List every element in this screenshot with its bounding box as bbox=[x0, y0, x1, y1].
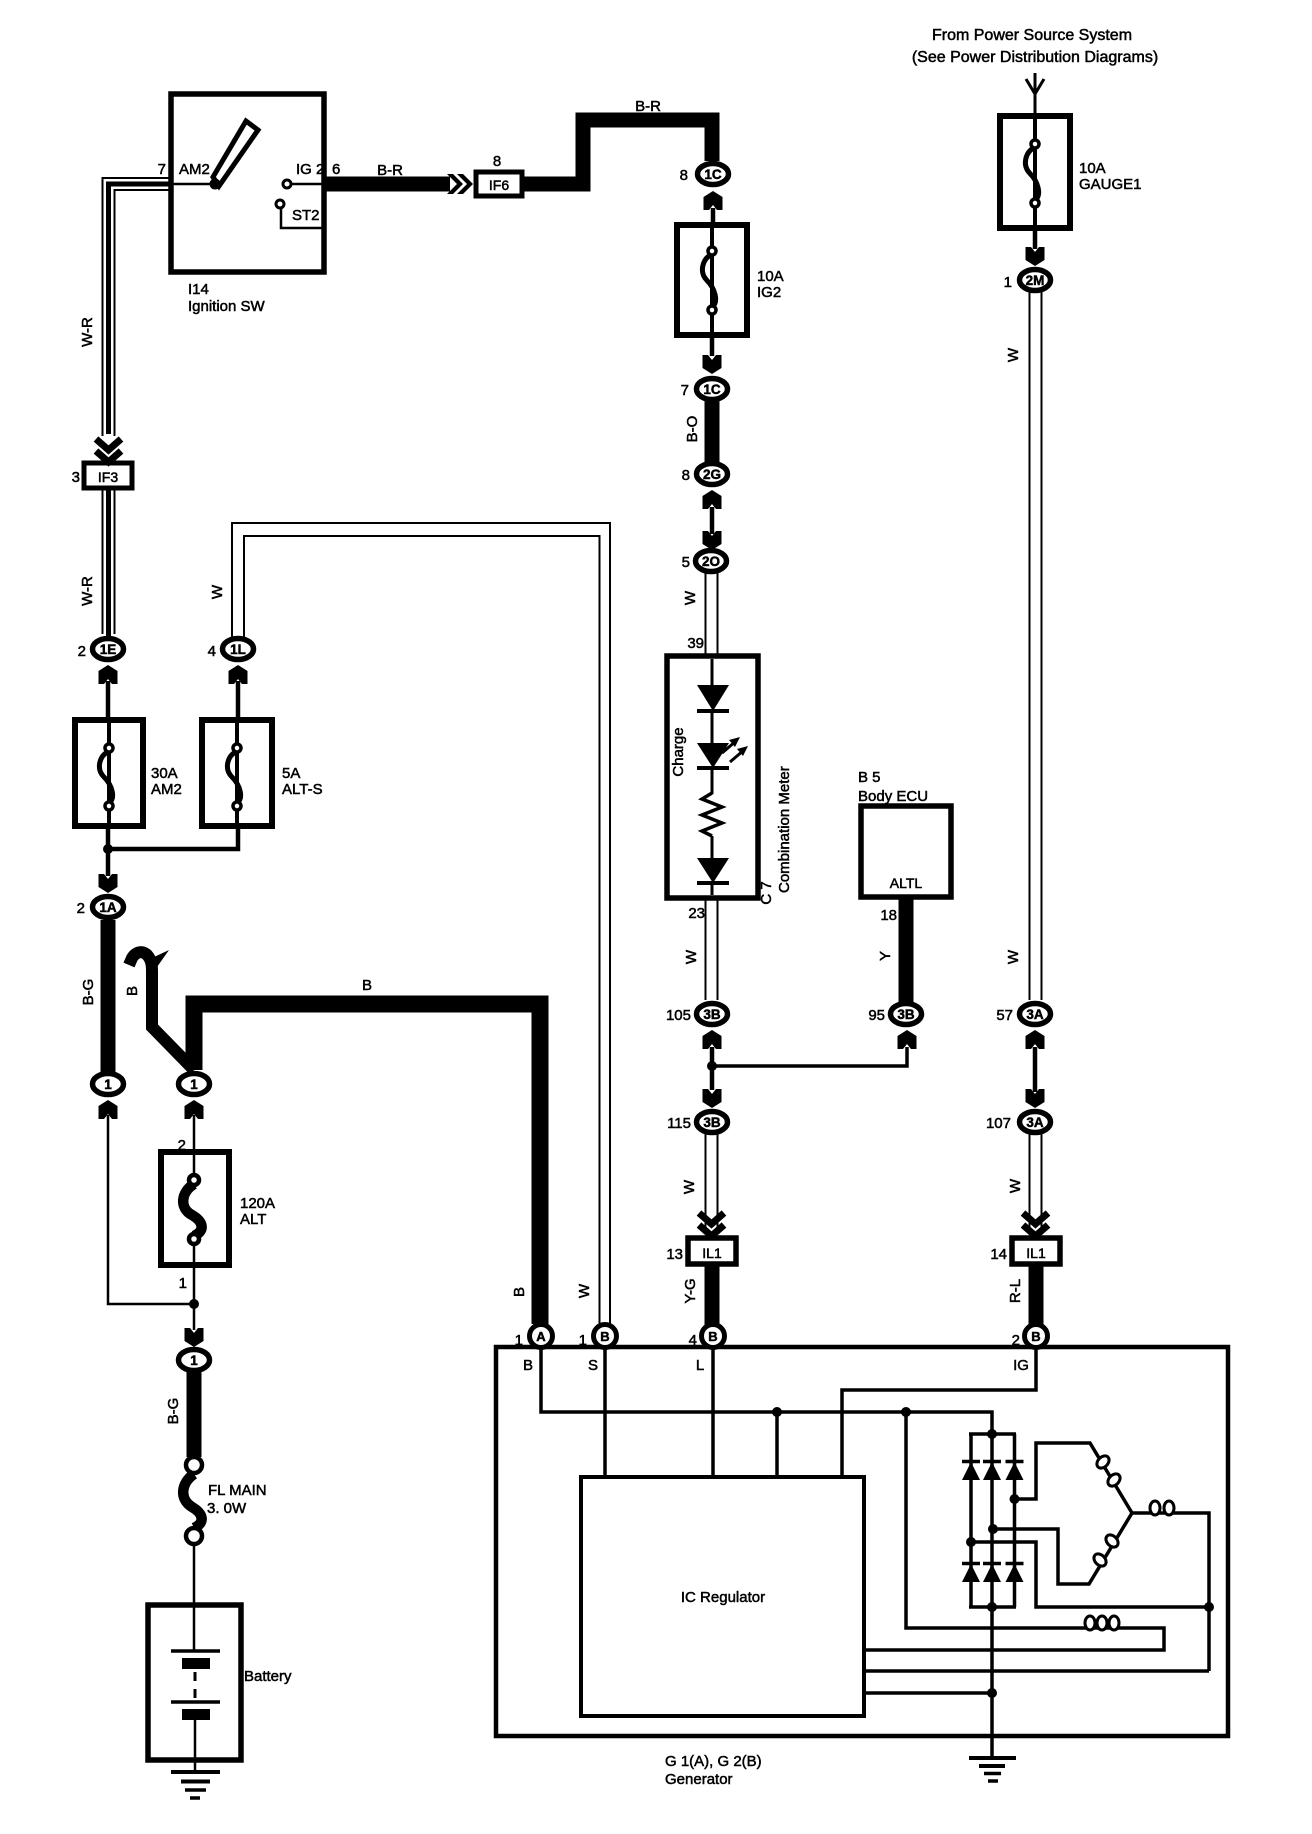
svg-text:1: 1 bbox=[179, 1275, 187, 1292]
arrow into 2O bbox=[703, 531, 722, 550]
svg-text:2G: 2G bbox=[703, 467, 721, 482]
connector 1C top bbox=[698, 164, 729, 185]
svg-text:1: 1 bbox=[190, 1353, 198, 1368]
svg-text:B: B bbox=[600, 1329, 609, 1344]
wire R-L to generator IG bbox=[1029, 1264, 1044, 1325]
svg-text:Y-G: Y-G bbox=[682, 1278, 699, 1303]
diode D2 bbox=[697, 858, 729, 883]
wire through fuse ALT bbox=[193, 1152, 196, 1265]
connector 3B 105 bbox=[697, 1004, 728, 1025]
wire W long line a bbox=[1029, 292, 1031, 1000]
open arrowhead bbox=[1026, 79, 1044, 94]
wire to junction bbox=[108, 1115, 194, 1304]
svg-text:IG: IG bbox=[1013, 1357, 1029, 1374]
arrow into IL1 14 bbox=[1023, 1213, 1048, 1236]
wire B rail internal bbox=[541, 1348, 992, 1758]
svg-text:2: 2 bbox=[78, 643, 86, 660]
svg-text:ST2: ST2 bbox=[292, 207, 320, 224]
connector 3B 115 bbox=[697, 1112, 728, 1133]
junction at 971,1542 bbox=[966, 1537, 976, 1547]
terminal A bbox=[530, 1325, 553, 1348]
terminal B IG bbox=[1025, 1325, 1048, 1348]
ignition switch I14 box bbox=[171, 94, 324, 272]
connector 1 mid bbox=[179, 1074, 210, 1095]
wire W meter to 3B line a bbox=[705, 898, 707, 1000]
svg-text:B-R: B-R bbox=[635, 98, 661, 115]
diode lower col2 bbox=[983, 1562, 1001, 1566]
ground battery bbox=[171, 1770, 220, 1774]
connector 2G bbox=[697, 464, 728, 485]
wire junction to 3B 95 bbox=[712, 1047, 907, 1066]
svg-text:W-R: W-R bbox=[79, 317, 96, 347]
wire phase C bbox=[971, 1542, 1209, 1607]
svg-text:B-G: B-G bbox=[80, 979, 97, 1006]
diode lower col1 bbox=[962, 1562, 980, 1566]
wire battery to ground bbox=[194, 1720, 197, 1771]
svg-text:10A: 10A bbox=[757, 268, 784, 285]
wire B hook from battery cable bbox=[129, 952, 194, 1070]
svg-text:30A: 30A bbox=[151, 765, 178, 782]
arrow into IL1 13 bbox=[699, 1213, 724, 1236]
wire bbox=[711, 883, 714, 895]
svg-text:1C: 1C bbox=[703, 382, 721, 397]
svg-text:ALT: ALT bbox=[240, 1211, 266, 1228]
svg-text:2M: 2M bbox=[1026, 273, 1045, 288]
wire fuse ALT-S to junction bbox=[108, 826, 238, 849]
arrow into IF3 bbox=[96, 439, 121, 462]
junction at 194,1304 bbox=[189, 1299, 199, 1309]
svg-text:AM2: AM2 bbox=[179, 161, 210, 178]
wire IG to IC regulator bbox=[842, 1348, 1036, 1477]
svg-text:Battery: Battery bbox=[244, 1668, 292, 1685]
svg-text:Combination Meter: Combination Meter bbox=[776, 766, 793, 893]
rectifier column 1 bbox=[969, 1434, 973, 1607]
stator coil loops winding 1 bbox=[1095, 1454, 1112, 1471]
junction at 906,1412 bbox=[901, 1407, 911, 1417]
svg-text:W: W bbox=[682, 590, 699, 605]
svg-text:1: 1 bbox=[515, 1332, 523, 1349]
resistor bbox=[702, 793, 722, 836]
connector 1A bbox=[93, 897, 124, 918]
svg-text:4: 4 bbox=[208, 643, 216, 660]
svg-text:3B: 3B bbox=[703, 1115, 721, 1130]
wire W to IL1 line a bbox=[1029, 1134, 1031, 1233]
charge lamp LED bbox=[697, 743, 729, 768]
svg-text:1: 1 bbox=[104, 1077, 112, 1092]
svg-text:IC Regulator: IC Regulator bbox=[681, 1589, 765, 1606]
arrow into 1E bbox=[99, 665, 118, 684]
svg-text:95: 95 bbox=[868, 1007, 885, 1024]
svg-text:5: 5 bbox=[682, 554, 690, 571]
wire fuse AM2 down bbox=[106, 826, 111, 876]
wire Y-G to generator L bbox=[705, 1264, 720, 1325]
svg-text:W: W bbox=[1005, 949, 1022, 964]
wire 3B to junction bbox=[710, 1047, 715, 1090]
svg-text:1A: 1A bbox=[99, 900, 117, 915]
wire W meter to 3B line b bbox=[717, 898, 719, 1000]
svg-text:ALTL: ALTL bbox=[890, 875, 923, 891]
svg-text:S: S bbox=[588, 1357, 598, 1374]
junction at 1209,1607 bbox=[1204, 1602, 1214, 1612]
svg-text:107: 107 bbox=[986, 1115, 1011, 1132]
wire W-R below IF3 line b bbox=[114, 488, 116, 634]
arrow into 1L bbox=[229, 665, 248, 684]
wire W-R below IF3 stripe bbox=[106, 488, 111, 636]
wire stator sense to IC regulator bbox=[864, 1669, 1209, 1673]
arrow into 3B 95 bbox=[898, 1030, 917, 1049]
wire 1L to fuse ALT-S bbox=[236, 681, 241, 720]
connector 1 left bbox=[93, 1074, 124, 1095]
junction at 108,849 bbox=[103, 844, 113, 854]
svg-text:10A: 10A bbox=[1079, 160, 1106, 177]
wire B main to generator bbox=[194, 1004, 540, 1324]
svg-text:13: 13 bbox=[666, 1246, 683, 1263]
svg-text:3A: 3A bbox=[1026, 1007, 1044, 1022]
svg-text:3A: 3A bbox=[1026, 1115, 1044, 1130]
wire W 1L line b bbox=[244, 536, 600, 1325]
svg-text:2: 2 bbox=[1012, 1332, 1020, 1349]
arrow into 3B 115 bbox=[703, 1089, 722, 1108]
stator coil loops winding 3 bbox=[1104, 1533, 1121, 1550]
svg-text:8: 8 bbox=[680, 167, 688, 184]
battery bbox=[148, 1605, 241, 1760]
junction at 993,1529 bbox=[988, 1524, 998, 1534]
svg-text:B: B bbox=[1031, 1329, 1040, 1344]
svg-text:Generator: Generator bbox=[665, 1771, 733, 1788]
fuse 120A ALT bbox=[161, 1152, 229, 1265]
svg-text:L: L bbox=[696, 1357, 704, 1374]
svg-text:3B: 3B bbox=[703, 1007, 721, 1022]
IC regulator box bbox=[581, 1477, 864, 1716]
svg-text:Charge: Charge bbox=[670, 727, 687, 776]
wire W 3B to IL1 line b bbox=[717, 1134, 719, 1233]
fuse 10A IG2 bbox=[677, 225, 747, 335]
svg-text:IL1: IL1 bbox=[1026, 1245, 1046, 1261]
stator coil loops winding 2 bbox=[1150, 1501, 1160, 1515]
arrow into connector 1 bottom bbox=[185, 1328, 204, 1347]
svg-text:B: B bbox=[124, 986, 141, 996]
svg-text:B-G: B-G bbox=[165, 1398, 182, 1425]
diode upper col3 bbox=[1006, 1460, 1024, 1464]
body ECU B5 box bbox=[861, 806, 951, 897]
junction at 1014.5,1499 bbox=[1010, 1494, 1020, 1504]
junction at 777,1412 bbox=[772, 1407, 782, 1417]
junction at 712,1066 bbox=[707, 1061, 717, 1071]
wire 1C to fuse IG2 bbox=[711, 208, 716, 225]
wire W long line b bbox=[1041, 292, 1043, 1000]
svg-text:B-R: B-R bbox=[377, 162, 403, 179]
junction at 992,1693 bbox=[987, 1688, 997, 1698]
in-line connector chevrons bbox=[447, 174, 463, 194]
svg-text:1E: 1E bbox=[100, 642, 117, 657]
wire fuse ALT to junction bbox=[193, 1265, 196, 1330]
junction at 992,1434 bbox=[987, 1429, 997, 1439]
connector IF6 bbox=[476, 172, 522, 196]
svg-text:W: W bbox=[576, 1283, 593, 1298]
svg-text:39: 39 bbox=[687, 635, 704, 652]
svg-text:GAUGE1: GAUGE1 bbox=[1079, 176, 1142, 193]
svg-text:ALT-S: ALT-S bbox=[282, 781, 323, 798]
battery plate long 2 bbox=[171, 1700, 220, 1704]
wire W-R below IF3 line a bbox=[102, 488, 104, 634]
diode upper col2 bbox=[983, 1460, 1001, 1464]
wire AM2 internal bbox=[171, 183, 212, 186]
svg-text:R-L: R-L bbox=[1007, 1279, 1024, 1303]
wire B-R from ignition bbox=[324, 177, 450, 192]
combination meter C7 box bbox=[667, 656, 758, 898]
stator winding 2 to sense bbox=[1132, 1513, 1209, 1671]
connector 3A 107 bbox=[1020, 1112, 1051, 1133]
connector 1C lower bbox=[697, 379, 728, 400]
svg-text:23: 23 bbox=[688, 905, 705, 922]
svg-text:7: 7 bbox=[158, 161, 166, 178]
arrow below 3B 105 bbox=[703, 1030, 722, 1049]
svg-text:1L: 1L bbox=[230, 642, 246, 657]
arrow into connector 1 mid bbox=[185, 1100, 204, 1119]
led arrow 2 bbox=[730, 750, 744, 762]
fusible link FL MAIN 3.0W bbox=[186, 1457, 202, 1473]
svg-text:W: W bbox=[1007, 1178, 1024, 1193]
svg-text:B: B bbox=[708, 1329, 717, 1344]
arrow into connector 1 left bbox=[99, 1100, 118, 1119]
wire fuse GAUGE1 down bbox=[1033, 228, 1038, 249]
wire IG2 internal bbox=[291, 183, 324, 186]
wire 3A to 3A bbox=[1033, 1047, 1038, 1092]
wire W to IL1 line b bbox=[1041, 1134, 1043, 1233]
svg-text:2: 2 bbox=[178, 1137, 186, 1154]
wire fuse IG2 down bbox=[710, 335, 715, 356]
svg-text:A: A bbox=[536, 1329, 546, 1344]
svg-text:3B: 3B bbox=[897, 1007, 915, 1022]
arrow below 2G bbox=[703, 490, 722, 509]
svg-text:(See Power Distribution Diagra: (See Power Distribution Diagrams) bbox=[912, 49, 1158, 66]
svg-text:120A: 120A bbox=[240, 1195, 275, 1212]
connector 3A 57 bbox=[1020, 1004, 1051, 1025]
wire ST2 internal bbox=[281, 209, 324, 228]
wire meter internal top bbox=[711, 659, 714, 686]
terminal B S bbox=[594, 1325, 617, 1348]
wire W-R center stripe bbox=[109, 184, 172, 434]
arrow into 3A 107 bbox=[1026, 1089, 1045, 1108]
connector IF3 bbox=[84, 463, 132, 488]
svg-text:C 7: C 7 bbox=[758, 881, 775, 904]
wire L to IC regulator bbox=[711, 1348, 715, 1477]
svg-text:W: W bbox=[209, 584, 226, 599]
wire from power source bbox=[1034, 73, 1037, 116]
svg-text:4: 4 bbox=[689, 1332, 697, 1349]
svg-text:Y: Y bbox=[877, 951, 894, 961]
svg-text:3: 3 bbox=[72, 469, 80, 486]
svg-text:2: 2 bbox=[77, 900, 85, 917]
svg-text:105: 105 bbox=[666, 1007, 691, 1024]
rotor coil loops bbox=[1085, 1616, 1095, 1630]
connector 1E bbox=[93, 639, 124, 660]
svg-text:18: 18 bbox=[880, 907, 897, 924]
connector 3B 95 bbox=[891, 1004, 922, 1025]
diode D1 bbox=[697, 685, 729, 711]
arrow below 3A 57 bbox=[1026, 1030, 1045, 1049]
connector 2M bbox=[1020, 270, 1051, 291]
wire B-O bbox=[705, 400, 720, 463]
junction at 992,1607 bbox=[987, 1602, 997, 1612]
svg-text:IG2: IG2 bbox=[757, 284, 781, 301]
svg-text:B: B bbox=[523, 1357, 533, 1374]
wire bbox=[711, 711, 714, 743]
connector IL1 pin13 bbox=[688, 1238, 736, 1264]
wire FL MAIN to battery bbox=[193, 1544, 196, 1651]
svg-text:1C: 1C bbox=[704, 167, 722, 182]
svg-text:6: 6 bbox=[332, 161, 340, 178]
wire B-G thick bbox=[101, 920, 116, 1072]
svg-text:B: B bbox=[362, 977, 372, 994]
connector 1 bottom bbox=[179, 1350, 210, 1371]
wire W 1L line a bbox=[232, 523, 610, 1325]
arrow into 2M bbox=[1026, 247, 1045, 266]
svg-text:W: W bbox=[681, 1179, 698, 1194]
svg-text:1: 1 bbox=[190, 1077, 198, 1092]
wire to fuse ALT bbox=[193, 1115, 196, 1152]
wire bbox=[711, 836, 714, 858]
IG2 contact bbox=[283, 180, 291, 188]
svg-text:AM2: AM2 bbox=[151, 781, 182, 798]
svg-text:W: W bbox=[1005, 347, 1022, 362]
svg-text:B-O: B-O bbox=[684, 416, 701, 443]
svg-text:14: 14 bbox=[990, 1246, 1007, 1263]
arrow into 1C lower bbox=[703, 355, 722, 374]
battery plate long 1 bbox=[171, 1649, 220, 1653]
svg-text:3. 0W: 3. 0W bbox=[207, 1500, 247, 1517]
wire 2G to 2O bbox=[710, 507, 715, 534]
svg-text:W: W bbox=[683, 949, 700, 964]
svg-text:5A: 5A bbox=[282, 765, 300, 782]
svg-text:1: 1 bbox=[1004, 274, 1012, 291]
wire B-R to 1C bbox=[522, 120, 712, 184]
wire S to IC regulator bbox=[603, 1348, 607, 1477]
rectifier top rail bbox=[969, 1432, 1016, 1436]
svg-text:B: B bbox=[511, 1287, 528, 1297]
svg-text:Ignition SW: Ignition SW bbox=[188, 298, 266, 315]
svg-text:1: 1 bbox=[579, 1332, 587, 1349]
svg-text:8: 8 bbox=[493, 153, 501, 170]
connector 2O bbox=[696, 551, 727, 572]
switch lever bbox=[213, 121, 258, 186]
svg-text:57: 57 bbox=[996, 1007, 1013, 1024]
svg-text:IL1: IL1 bbox=[702, 1245, 722, 1261]
svg-text:B 5: B 5 bbox=[858, 769, 881, 786]
junction at 215,184 bbox=[210, 179, 221, 190]
wire 1E to fuse AM2 bbox=[106, 681, 111, 720]
connector 1L bbox=[223, 639, 254, 660]
svg-text:From Power Source System: From Power Source System bbox=[932, 27, 1132, 44]
connector IL1 pin14 bbox=[1012, 1238, 1060, 1264]
svg-text:Body ECU: Body ECU bbox=[858, 788, 928, 805]
wire W to meter line b bbox=[717, 573, 719, 656]
generator box bbox=[496, 1347, 1228, 1736]
wire B to IC regulator bbox=[775, 1412, 779, 1477]
diode lower col3 bbox=[1006, 1562, 1024, 1566]
wire W-R outer line b bbox=[115, 190, 172, 436]
svg-text:2O: 2O bbox=[702, 554, 720, 569]
svg-text:115: 115 bbox=[667, 1115, 691, 1132]
svg-text:8: 8 bbox=[682, 467, 690, 484]
svg-text:FL MAIN: FL MAIN bbox=[208, 1482, 267, 1499]
wire Y to body ECU bbox=[899, 897, 914, 1002]
wire B-G to FL MAIN bbox=[187, 1372, 202, 1457]
ST2 contact bbox=[276, 200, 284, 208]
stator winding 1 bbox=[1015, 1443, 1133, 1513]
led arrow 1 bbox=[722, 741, 736, 753]
svg-text:7: 7 bbox=[681, 382, 689, 399]
hook barb bbox=[152, 950, 169, 967]
stator winding 3 bbox=[993, 1513, 1132, 1584]
arrow into 1A bbox=[99, 874, 118, 893]
fuse 5A ALT-S bbox=[202, 720, 272, 826]
diode upper col1 bbox=[962, 1460, 980, 1464]
wire IC regulator to ground rail bbox=[864, 1691, 992, 1695]
arrow into 1C top bbox=[704, 191, 723, 210]
rectifier column 3 bbox=[1013, 1434, 1017, 1607]
svg-text:IG 2: IG 2 bbox=[296, 161, 324, 178]
terminal B L bbox=[702, 1325, 725, 1348]
svg-text:W-R: W-R bbox=[79, 576, 96, 606]
wire W to meter line a bbox=[705, 573, 707, 656]
fuse 30A AM2 bbox=[75, 720, 143, 826]
svg-text:G 1(A), G 2(B): G 1(A), G 2(B) bbox=[665, 1753, 762, 1770]
svg-text:I14: I14 bbox=[188, 281, 209, 298]
wire W-R outer line a bbox=[103, 178, 172, 436]
wire W 3B to IL1 line a bbox=[705, 1134, 707, 1233]
fuse 10A GAUGE1 bbox=[1000, 116, 1070, 228]
ground generator bbox=[969, 1756, 1016, 1760]
svg-text:IF6: IF6 bbox=[489, 177, 509, 193]
battery dashed middle bbox=[194, 1672, 197, 1699]
rotor field winding wire bbox=[864, 1412, 1164, 1650]
wire bbox=[711, 768, 714, 794]
svg-text:IF3: IF3 bbox=[98, 469, 118, 485]
rectifier bottom rail bbox=[969, 1605, 1016, 1609]
